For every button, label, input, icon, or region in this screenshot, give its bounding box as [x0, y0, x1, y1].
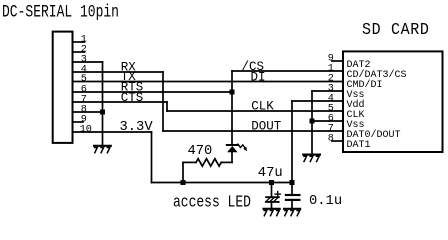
SD pin 3 number — [328, 84, 334, 95]
SD label DAT2 — [347, 60, 371, 71]
pin 9 number — [81, 115, 87, 126]
wire SD pin4 Vdd — [292, 100, 343, 102]
wire SD pin3 Vss — [312, 90, 343, 92]
wire /CS horizontal — [232, 70, 343, 72]
wire GND vertical from pin3 to pin8 to ground — [102, 62, 104, 146]
SD pin 4 number — [328, 94, 334, 105]
label RX — [121, 60, 137, 74]
SD pin 2 number — [328, 74, 334, 85]
ground GND3 (0.1u) — [284, 208, 300, 210]
ground GND1 (serial) — [94, 145, 111, 147]
SD pin 1 number — [328, 64, 334, 75]
svg-text:470: 470 — [188, 144, 213, 159]
pin 2 wire — [73, 51, 85, 53]
pin 4 number — [81, 65, 87, 76]
pin 6 wire RTS — [73, 91, 233, 93]
pin 7 wire CTS — [73, 101, 168, 103]
svg-text:CTS: CTS — [121, 91, 144, 105]
ground GND2 (47u) — [264, 208, 280, 210]
SD pin 5 number — [328, 104, 334, 115]
SD pin 7 number — [328, 124, 334, 135]
svg-text:access LED: access LED — [173, 192, 251, 212]
wire 3.3V vertical drop — [151, 132, 153, 183]
svg-text:10: 10 — [80, 125, 92, 136]
pin 10 number — [80, 125, 92, 136]
wire Vss vertical to ground — [311, 91, 313, 154]
SD label DAT1 — [347, 140, 371, 151]
pin 4 wire RX — [73, 71, 164, 73]
SD pin 6 number — [328, 114, 334, 125]
SD label Vss pin6 — [347, 120, 365, 131]
LED D1 — [227, 144, 238, 146]
pin 7 number — [81, 95, 87, 106]
junction pin8/GND — [100, 110, 105, 115]
ground GND4 (SD) — [303, 154, 320, 156]
svg-text:DI: DI — [251, 71, 266, 85]
wire CTS jog down — [166, 102, 168, 111]
capacitor C1 47u plate- hatched — [266, 198, 277, 201]
label TX — [121, 70, 137, 84]
resistor R1 470 lead right — [221, 161, 232, 163]
resistor R1 lead left — [183, 161, 196, 163]
wire /CS vertical — [231, 71, 233, 92]
connector J1 body — [53, 32, 73, 143]
label RTS — [121, 80, 144, 94]
SD label Vss — [347, 90, 365, 101]
label 470 — [188, 144, 213, 159]
pin 3 number — [81, 55, 87, 66]
capacitor C1 plus sign — [275, 192, 280, 197]
svg-text:47u: 47u — [258, 166, 283, 181]
capacitor C2 0.1u plates — [286, 195, 300, 200]
SD pin 8 number — [328, 134, 334, 145]
SD label DAT0/DOUT — [347, 129, 401, 141]
pin 3 wire (GND net) — [73, 61, 103, 63]
wire CLK horizontal — [167, 110, 343, 112]
wire resistor to rail — [182, 162, 184, 182]
wire RX vertical to DOUT — [162, 72, 164, 131]
SD label CD/DAT3/CS — [347, 69, 407, 81]
SD pin 8 wire — [332, 140, 343, 142]
label access LED — [173, 192, 251, 212]
label CTS — [121, 91, 144, 105]
junction 47u/rail — [269, 180, 274, 185]
wire SD pin6 Vss — [312, 120, 343, 122]
capacitor C1 lead bottom — [271, 202, 273, 208]
label DOUT — [251, 120, 282, 134]
SD pin 9 wire — [332, 60, 343, 62]
capacitor C2 lead bottom — [291, 200, 293, 209]
pin 1 number — [81, 35, 87, 46]
capacitor C1 47u lead top — [271, 183, 273, 197]
svg-text:CLK: CLK — [251, 100, 274, 114]
svg-text:SD CARD: SD CARD — [362, 20, 430, 39]
capacitor C1 47u plate+ — [266, 196, 279, 198]
pin 9 wire — [73, 121, 84, 123]
junction Vss pin6 — [310, 119, 315, 124]
pin 5 wire TX / DI net — [73, 81, 344, 83]
svg-text:5: 5 — [81, 74, 87, 85]
pin 1 wire — [73, 41, 85, 43]
label CLK — [251, 100, 274, 114]
SD pin 9 number — [328, 54, 334, 65]
connector J2 SD CARD title — [362, 20, 430, 39]
wire Vdd vertical — [291, 101, 293, 183]
junction resistor/rail — [181, 180, 186, 185]
LED D1 emission arrow — [238, 144, 245, 147]
svg-text:0.1u: 0.1u — [309, 194, 342, 209]
pin 8 number — [81, 105, 87, 116]
svg-text:DOUT: DOUT — [251, 120, 282, 134]
label 0.1u — [309, 194, 342, 209]
svg-text:DAT1: DAT1 — [347, 140, 371, 151]
svg-text:DC-SERIAL 10pin: DC-SERIAL 10pin — [2, 2, 119, 22]
capacitor C2 0.1u lead top — [291, 183, 293, 194]
SD label CMD/DI — [347, 79, 383, 91]
label /CS — [242, 60, 265, 74]
junction Vdd/rail/0.1u — [290, 180, 295, 185]
wire DOUT horizontal — [163, 130, 343, 132]
connector J2 body — [343, 51, 443, 152]
label 47u — [258, 166, 283, 181]
SD label CLK — [347, 110, 365, 121]
SD label Vdd — [347, 99, 365, 111]
connector J1 DC-SERIAL 10pin title — [2, 2, 119, 22]
pin 10 wire 3.3V net — [73, 131, 152, 133]
resistor R1 470 body — [196, 159, 221, 166]
label 3.3V — [120, 120, 154, 135]
pin 2 number — [81, 45, 87, 56]
label DI — [251, 71, 266, 85]
wire LED anode from junction — [231, 92, 233, 145]
wire 3.3V rail — [152, 182, 293, 184]
junction RTS //CS/LED — [230, 90, 235, 95]
pin 8 wire — [73, 111, 103, 113]
pin 5 number — [81, 74, 87, 85]
pin 6 number — [81, 85, 87, 96]
svg-text:3.3V: 3.3V — [120, 120, 154, 135]
svg-text:8: 8 — [328, 134, 334, 145]
